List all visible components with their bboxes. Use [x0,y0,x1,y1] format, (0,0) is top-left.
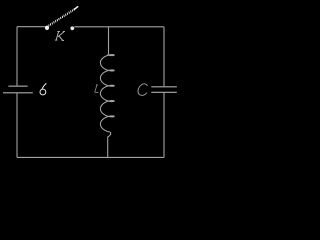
wire right edge lower [163,93,165,158]
switch K lever (open blade) [47,6,78,27]
capacitor C top plate [151,86,177,88]
wire left edge lower [16,93,18,157]
label L [95,85,99,93]
wire right edge upper [163,27,165,86]
wire middle branch upper lead [108,27,110,55]
wire middle branch lower lead [107,137,109,158]
battery: long plate (positive) [3,92,33,94]
wire bottom [17,156,164,158]
inductor L coil (5 loops) [100,55,114,137]
switch K left contact [45,26,49,30]
capacitor C bottom plate [151,91,177,93]
label EMF (script delta) [40,83,46,95]
label K [55,31,65,40]
wire top-left segment [17,26,46,28]
label C [138,84,147,96]
battery: short plate (negative) [8,85,27,87]
switch K right contact [70,26,74,30]
wire left edge upper [16,27,18,86]
wire top-right segment [74,26,164,28]
